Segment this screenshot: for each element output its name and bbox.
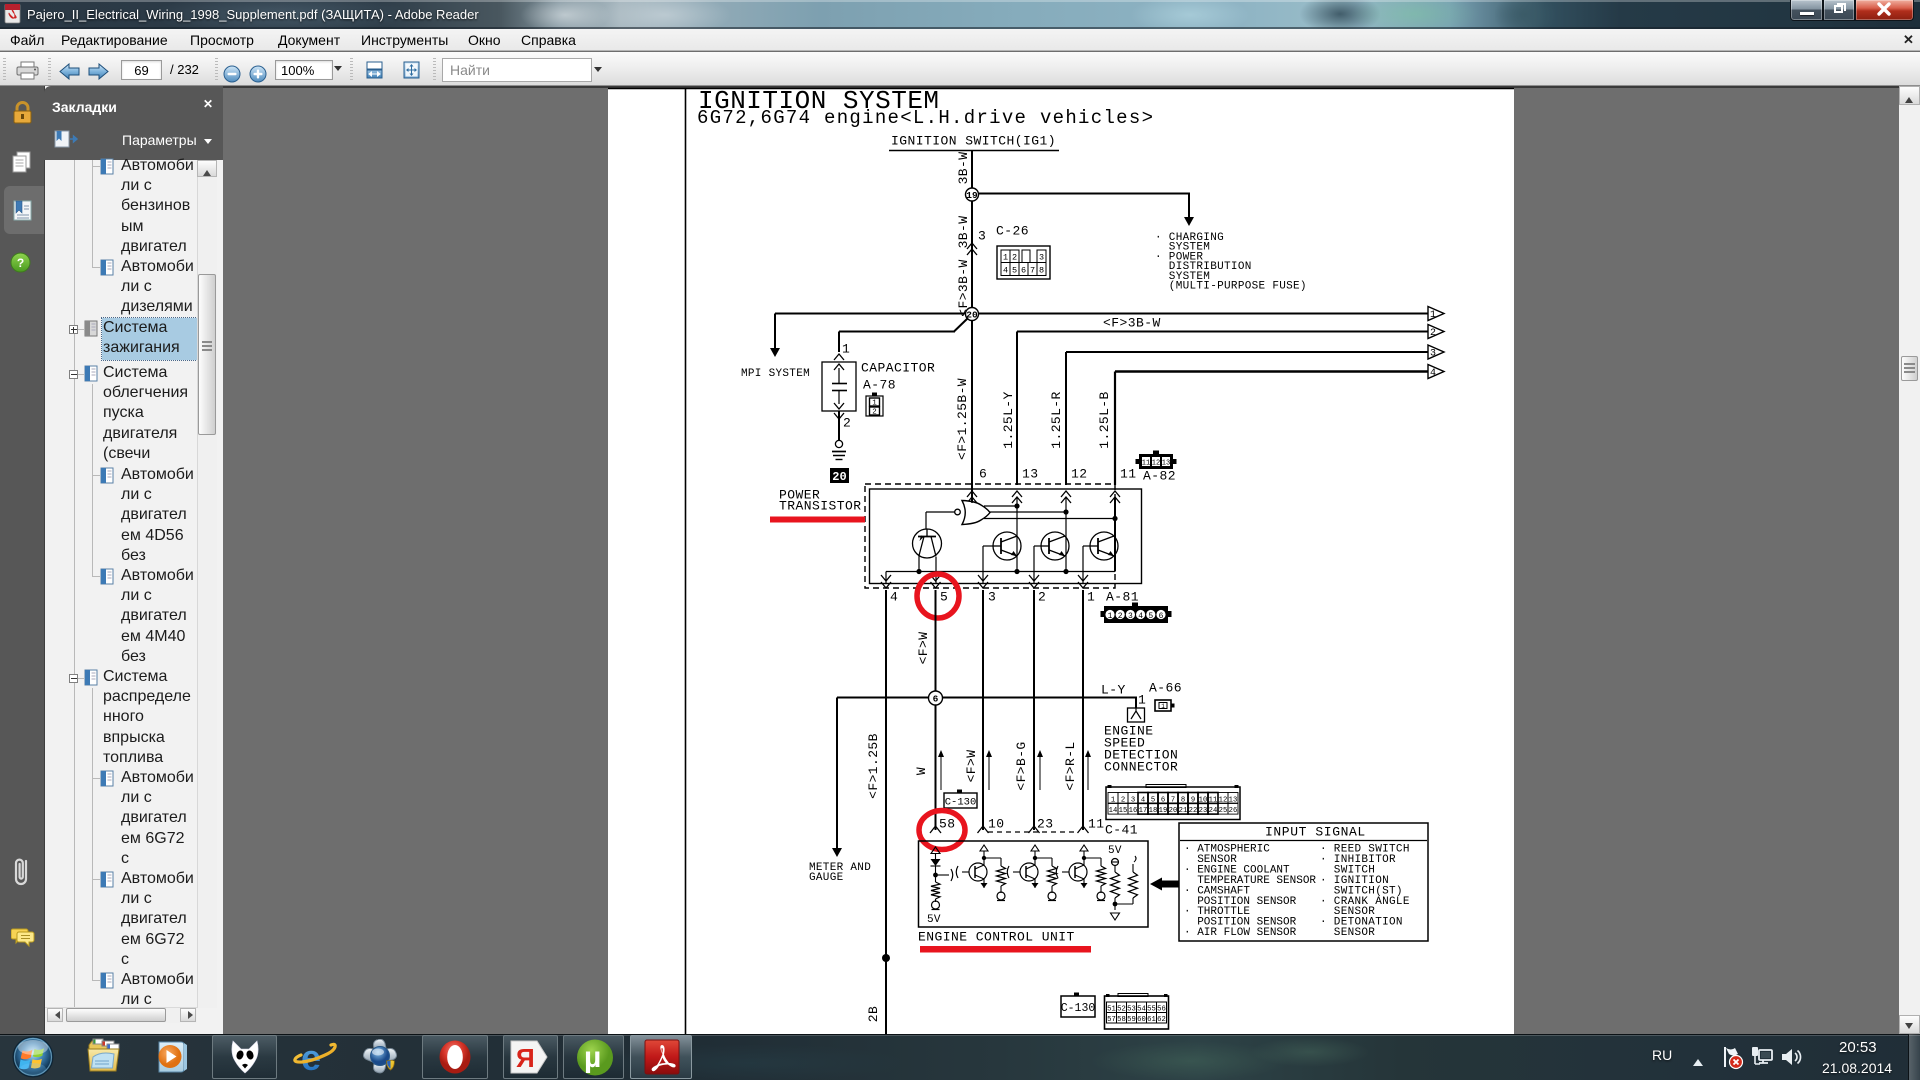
bookmarks tab (active) <box>4 186 44 234</box>
pin exit chevrons x=1083 <box>1078 575 1088 588</box>
emitter bus <box>886 569 1115 583</box>
connector C-130 small label box <box>944 790 977 809</box>
svg-text:<F>R-L: <F>R-L <box>1063 741 1078 790</box>
attachments paperclip icon <box>13 855 31 889</box>
taskbar wmp icon <box>153 1039 190 1075</box>
svg-text:3B-W: 3B-W <box>956 216 971 249</box>
svg-text:57: 57 <box>1107 1016 1116 1024</box>
label W with direction arrow <box>914 750 944 790</box>
pin 13 entry chevron <box>1012 491 1022 503</box>
transistor Q1 <box>913 529 942 558</box>
wire label (F)W <box>916 632 931 665</box>
wire node20 left to MPI branch <box>770 314 966 358</box>
svg-text:2: 2 <box>1012 253 1017 263</box>
nav back arrow <box>59 63 81 80</box>
svg-text:1: 1 <box>1161 703 1165 710</box>
svg-text:21: 21 <box>1179 807 1188 815</box>
connector C-26 label <box>996 224 1029 239</box>
svg-text:C-41: C-41 <box>1105 823 1138 838</box>
svg-text:<F>W: <F>W <box>964 750 979 783</box>
input signal box <box>1179 823 1428 941</box>
bookmarks panel <box>44 86 223 1034</box>
svg-text:8: 8 <box>1039 266 1044 276</box>
svg-text:(MULTI-PURPOSE FUSE): (MULTI-PURPOSE FUSE) <box>1155 281 1307 293</box>
zoom in button <box>249 65 267 83</box>
svg-text:19: 19 <box>1159 807 1168 815</box>
power transistor inner box <box>870 489 1142 584</box>
svg-text:59: 59 <box>1127 1016 1136 1024</box>
power transistor dashed box <box>865 484 1115 588</box>
tray clock time <box>1839 1039 1877 1056</box>
svg-text:11: 11 <box>1120 467 1136 482</box>
svg-text:<F>1.25B: <F>1.25B <box>866 733 881 799</box>
panel horizontal scrollbar <box>45 1007 197 1023</box>
bookmark item Система <box>78 374 84 375</box>
pin 12 entry chevron <box>1061 491 1071 503</box>
label (F)R-L with direction arrow <box>1063 741 1091 790</box>
NOR gate U1 <box>955 498 990 525</box>
window title text <box>27 7 479 22</box>
svg-text:1: 1 <box>1430 310 1436 321</box>
pin exit chevrons x=1034 <box>1029 575 1039 588</box>
svg-text:23: 23 <box>1037 817 1053 832</box>
wire label 1.25L-R <box>1049 391 1064 448</box>
svg-text:2: 2 <box>843 416 851 431</box>
svg-text:TRANSISTOR: TRANSISTOR <box>779 499 862 514</box>
transistor Q3 <box>1034 532 1069 583</box>
svg-text:SENSOR: SENSOR <box>1320 927 1375 939</box>
svg-text:10: 10 <box>988 817 1004 832</box>
pin exit chevrons x=935.5 <box>931 575 941 588</box>
svg-text:11: 11 <box>1142 460 1150 468</box>
gate output line A <box>984 503 1020 508</box>
pdf page <box>608 88 1514 1034</box>
svg-text:61: 61 <box>1147 1016 1156 1024</box>
ECU internal transistor stage 1 <box>956 845 1005 901</box>
svg-text:58: 58 <box>939 817 955 832</box>
svg-text:2: 2 <box>872 409 877 417</box>
wire label (F)1.25B-W <box>955 378 970 460</box>
bookmark item Автомоби <box>100 158 114 175</box>
svg-text:3: 3 <box>1128 612 1133 621</box>
red underline power transistor <box>770 517 865 523</box>
wire label 3B-W second <box>956 216 971 249</box>
svg-text:6: 6 <box>979 467 987 482</box>
engine speed detection connector symbol <box>1128 708 1145 722</box>
svg-text:CAPACITOR: CAPACITOR <box>861 361 935 376</box>
ECU entry chevrons and dashed C-41 line <box>930 826 1089 833</box>
label (F)W with direction arrow <box>964 750 992 790</box>
label IGNITION SWITCH(IG1) <box>889 134 1059 151</box>
svg-text:6: 6 <box>1021 266 1026 276</box>
gate output line B <box>989 509 1069 514</box>
tray speaker icon <box>1780 1046 1802 1068</box>
diagonal from node 20 to capacitor branch <box>839 318 968 352</box>
svg-text:6: 6 <box>1159 612 1164 621</box>
wire node 19 to node 20 <box>971 201 973 314</box>
Q1 emitter legs <box>919 556 936 584</box>
svg-text:14: 14 <box>1109 807 1118 815</box>
svg-text:INPUT SIGNAL: INPUT SIGNAL <box>1265 825 1366 840</box>
ground ref black box 20 <box>830 468 849 484</box>
diagram subtitle <box>697 107 1154 129</box>
svg-text:60: 60 <box>1137 1016 1146 1024</box>
toolbar <box>0 52 1920 86</box>
gate output line C <box>984 516 1118 521</box>
security lock icon <box>12 101 33 125</box>
svg-text:1: 1 <box>872 400 877 408</box>
svg-text:2: 2 <box>1118 612 1123 621</box>
diagram title IGNITION SYSTEM <box>698 86 940 116</box>
svg-text:CONNECTOR: CONNECTOR <box>1104 760 1178 775</box>
bookmark item Автомоби <box>100 568 114 585</box>
red circle around pin 58 <box>919 811 965 850</box>
connector C-26 pin box <box>997 246 1050 279</box>
svg-text:5V: 5V <box>1108 845 1122 857</box>
svg-text:2: 2 <box>1038 590 1046 605</box>
svg-text:20: 20 <box>1169 807 1178 815</box>
svg-text:ENGINE CONTROL UNIT: ENGINE CONTROL UNIT <box>918 930 1075 945</box>
svg-text:1: 1 <box>1003 253 1008 263</box>
svg-text:W: W <box>914 767 929 775</box>
bookmark item Автомоби <box>100 259 114 276</box>
svg-text:5V: 5V <box>927 914 941 926</box>
taskbar adobe reader button (active) <box>630 1035 692 1079</box>
off-page wire 2 <box>1017 325 1444 486</box>
transistor Q4 <box>1083 532 1118 583</box>
connector A-81 icon <box>1101 603 1172 624</box>
input signal arrow into ECU <box>1150 878 1181 891</box>
svg-text:C-26: C-26 <box>996 224 1029 239</box>
svg-text:16: 16 <box>1129 807 1138 815</box>
navigation pane left icon strip <box>0 86 44 1034</box>
wire pin12 down <box>1065 498 1067 572</box>
svg-text:2: 2 <box>1430 328 1436 339</box>
bookmark item Автомоби <box>100 972 114 989</box>
svg-text:13: 13 <box>1162 460 1170 468</box>
svg-text:3: 3 <box>1430 349 1436 360</box>
off-page wire 4 <box>1115 365 1444 486</box>
main wire node 20 to power transistor pin 6 <box>971 320 973 502</box>
wire label (F)1.25B <box>866 733 881 799</box>
print button icon <box>15 61 41 81</box>
svg-text:5: 5 <box>940 590 948 605</box>
connector A-66 icon <box>1155 700 1175 711</box>
svg-text:<F>3B-W: <F>3B-W <box>1103 316 1161 331</box>
svg-text:A-66: A-66 <box>1149 681 1182 696</box>
window buttons min/max/close <box>1790 0 1916 21</box>
document vertical scrollbar <box>1899 86 1920 1034</box>
meter branch wire <box>832 698 929 858</box>
show desktop button <box>1908 1034 1920 1080</box>
wire pin11 down <box>1114 498 1116 572</box>
svg-text:µ: µ <box>584 1041 601 1074</box>
pin 6 entry chevron <box>967 491 977 503</box>
node 6 <box>929 691 943 705</box>
taskbar foobar2000 button <box>212 1035 277 1079</box>
wire node19 to charging branch <box>979 194 1194 227</box>
taskbar opera button <box>422 1035 488 1079</box>
bottom connector C-130 grid <box>1105 994 1169 1030</box>
red underline engine control unit <box>920 946 1091 953</box>
junction dot on 2B wire <box>882 954 890 962</box>
off-page wire 3 <box>1066 345 1444 485</box>
tray language RU <box>1652 1047 1672 1063</box>
power transistor label <box>779 488 862 514</box>
expand current bookmark icon <box>54 130 78 148</box>
taskbar yandex button <box>503 1035 558 1079</box>
bookmark item Автомоби <box>100 871 114 888</box>
label (F)3B-W horizontal <box>1103 316 1161 331</box>
node 20 <box>966 308 979 321</box>
svg-text:23: 23 <box>1199 807 1208 815</box>
svg-text:A-82: A-82 <box>1143 469 1176 484</box>
wire label (F)3B-W <box>956 259 971 316</box>
svg-text:24: 24 <box>1209 807 1218 815</box>
svg-text:GAUGE: GAUGE <box>809 872 844 884</box>
svg-text:MPI SYSTEM: MPI SYSTEM <box>741 368 810 380</box>
svg-text:1: 1 <box>1087 590 1095 605</box>
svg-text:11: 11 <box>1088 817 1104 832</box>
svg-text:1: 1 <box>1138 693 1146 708</box>
svg-text:7: 7 <box>1030 266 1035 276</box>
label L-Y <box>1101 683 1126 698</box>
document pane background <box>223 86 1920 1034</box>
page number input <box>121 60 162 80</box>
svg-text:62: 62 <box>1157 1016 1166 1024</box>
svg-text:?: ? <box>17 256 24 270</box>
ECU pin58 input: triangle, diode, resistor, 5V <box>931 847 953 910</box>
help icon <box>10 252 31 273</box>
start orb <box>12 1035 54 1079</box>
svg-text:5: 5 <box>1012 266 1017 276</box>
svg-text:3: 3 <box>1039 253 1044 263</box>
pin 3 of C-26 <box>978 229 986 244</box>
svg-text:IGNITION SWITCH(IG1): IGNITION SWITCH(IG1) <box>891 134 1056 149</box>
taskbar <box>0 1034 1920 1080</box>
label A-66 <box>1149 681 1182 696</box>
ECU 5V label bottom-left <box>927 914 941 926</box>
bookmark item Система <box>78 678 84 679</box>
svg-text:5: 5 <box>1148 612 1153 621</box>
ECU internal transistor stage 2 <box>1007 845 1056 901</box>
label ENGINE CONTROL UNIT <box>918 930 1075 945</box>
svg-text:1: 1 <box>1108 612 1113 621</box>
bookmark item Автомоби <box>100 770 114 787</box>
wire pin1 down to ECU <box>1082 590 1084 830</box>
svg-text:4: 4 <box>1138 612 1143 621</box>
tray hidden icons arrow <box>1693 1054 1703 1066</box>
transistor Q2 <box>983 532 1021 583</box>
bookmarks panel header <box>44 86 223 160</box>
label ENGINE SPEED DETECTION CONNECTOR <box>1104 724 1178 775</box>
ECU pin labels 58 10 23 11 C-41 <box>939 817 1138 838</box>
svg-text:1.25L-R: 1.25L-R <box>1049 391 1064 448</box>
tray clock date <box>1822 1060 1892 1076</box>
wire pin58 node6 to ECU <box>935 705 937 830</box>
svg-text:58: 58 <box>1117 1016 1126 1024</box>
svg-text:6G72,6G74 engine<L.H.drive veh: 6G72,6G74 engine<L.H.drive vehicles> <box>697 107 1154 129</box>
svg-text:3: 3 <box>978 229 986 244</box>
wire pin4 down (2B) <box>885 590 887 1034</box>
svg-text:C-130: C-130 <box>1061 1002 1096 1015</box>
note charging / power distribution <box>1155 232 1307 293</box>
svg-text:1: 1 <box>842 342 850 357</box>
taskbar utility icon <box>360 1039 402 1077</box>
svg-text:2B: 2B <box>866 1006 881 1022</box>
wire pin3 down to ECU <box>982 590 984 830</box>
pdf app icon <box>4 4 24 25</box>
window title bar <box>0 0 1920 29</box>
wire node6 to engine speed connector <box>942 698 1137 709</box>
pages icon <box>11 151 33 173</box>
label (F)B-G with direction arrow <box>1014 741 1043 790</box>
svg-text:1.25L-B: 1.25L-B <box>1097 391 1112 448</box>
ground symbol <box>832 440 846 459</box>
svg-text:Я: Я <box>516 1043 535 1073</box>
svg-text:<F>B-G: <F>B-G <box>1014 741 1029 790</box>
ECU right section 5V pull-ups <box>1108 845 1138 920</box>
svg-text:<F>1.25B-W: <F>1.25B-W <box>955 378 970 460</box>
capacitor A-78 box <box>822 362 856 411</box>
selected bookmark highlight <box>102 318 197 360</box>
wire from ignition switch down to node 19 <box>971 151 973 194</box>
pin 11 entry chevron <box>1110 491 1120 503</box>
panel vertical scrollbar <box>197 160 217 1008</box>
svg-text:12: 12 <box>1071 467 1087 482</box>
label CAPACITOR A-78 <box>861 361 935 393</box>
menu bar <box>0 29 1920 51</box>
svg-text:4: 4 <box>890 590 898 605</box>
comments icon <box>11 927 35 949</box>
node 19 <box>966 188 979 201</box>
label METER AND GAUGE <box>809 862 871 884</box>
svg-text:20: 20 <box>832 470 846 484</box>
gate input wire <box>926 512 955 529</box>
svg-text:A-78: A-78 <box>863 378 896 393</box>
find box <box>442 58 592 82</box>
connector C-41 grid <box>1106 785 1240 820</box>
bookmark item Система <box>78 329 84 330</box>
fit page icon <box>403 61 420 79</box>
pin exit chevrons x=886 <box>881 575 891 588</box>
svg-text:3: 3 <box>988 590 996 605</box>
wire pin2 down to ECU <box>1033 590 1035 830</box>
svg-text:4: 4 <box>1003 266 1008 276</box>
svg-text:22: 22 <box>1189 807 1198 815</box>
taskbar internet explorer icon <box>291 1037 337 1077</box>
tray network icon <box>1751 1046 1773 1069</box>
label MPI SYSTEM <box>741 368 810 380</box>
svg-text:A-81: A-81 <box>1106 590 1139 605</box>
capacitor pin 2 <box>834 411 851 440</box>
bottom connector C-130 label box <box>1061 993 1096 1018</box>
ECU internal transistor stage 3 <box>1056 845 1105 901</box>
wire label 1.25L-B <box>1097 391 1112 448</box>
svg-text:19: 19 <box>966 190 978 201</box>
svg-text:6: 6 <box>933 693 939 704</box>
engine speed detection connector pin 1 <box>1138 693 1146 708</box>
connector A-82 icon <box>1136 451 1177 470</box>
svg-text:<F>W: <F>W <box>916 632 931 665</box>
svg-text:12: 12 <box>1152 460 1160 468</box>
capacitor branch pin 1 <box>834 342 850 361</box>
svg-text:· AIR FLOW SENSOR: · AIR FLOW SENSOR <box>1184 927 1297 939</box>
taskbar utorrent button <box>563 1035 624 1079</box>
engine control unit box <box>919 841 1149 927</box>
wire label 2B <box>866 1006 881 1022</box>
svg-text:13: 13 <box>1022 467 1038 482</box>
chevron arrows into C-26 pin 3 <box>967 243 977 255</box>
off-page wire 1 <box>978 307 1444 322</box>
wire pin5 down to node 6 <box>935 590 937 698</box>
pin exit chevrons x=983 <box>978 575 988 588</box>
taskbar explorer icon <box>85 1037 125 1075</box>
zoom level combo <box>275 60 333 80</box>
svg-text:26: 26 <box>1229 807 1238 815</box>
wire label 3B-W <box>956 152 971 185</box>
svg-text:L-Y: L-Y <box>1101 683 1126 698</box>
svg-text:18: 18 <box>1149 807 1158 815</box>
svg-text:4: 4 <box>1430 368 1436 379</box>
wire pin13 down <box>1016 498 1018 572</box>
fit width icon <box>366 61 383 79</box>
pin labels 4 5 3 2 1 / A-81 <box>890 590 1139 605</box>
svg-text:15: 15 <box>1119 807 1128 815</box>
svg-text:C-130: C-130 <box>945 797 977 809</box>
connector A-78 pin icon <box>866 393 883 417</box>
bookmark item Автомоби <box>100 467 114 484</box>
svg-text:25: 25 <box>1219 807 1228 815</box>
wire label 1.25L-Y <box>1001 391 1016 448</box>
nav forward arrow <box>87 63 109 80</box>
svg-text:1.25L-Y: 1.25L-Y <box>1001 391 1016 448</box>
red circle around pin 5 <box>917 574 959 618</box>
label A-82 <box>1143 469 1176 484</box>
tray action center flag <box>1722 1046 1744 1070</box>
svg-text:3B-W: 3B-W <box>956 152 971 185</box>
tree guide lines <box>74 160 75 1008</box>
svg-text:17: 17 <box>1139 807 1148 815</box>
page frame border <box>608 88 1514 1034</box>
pin labels 6 13 12 11 <box>979 467 1136 482</box>
